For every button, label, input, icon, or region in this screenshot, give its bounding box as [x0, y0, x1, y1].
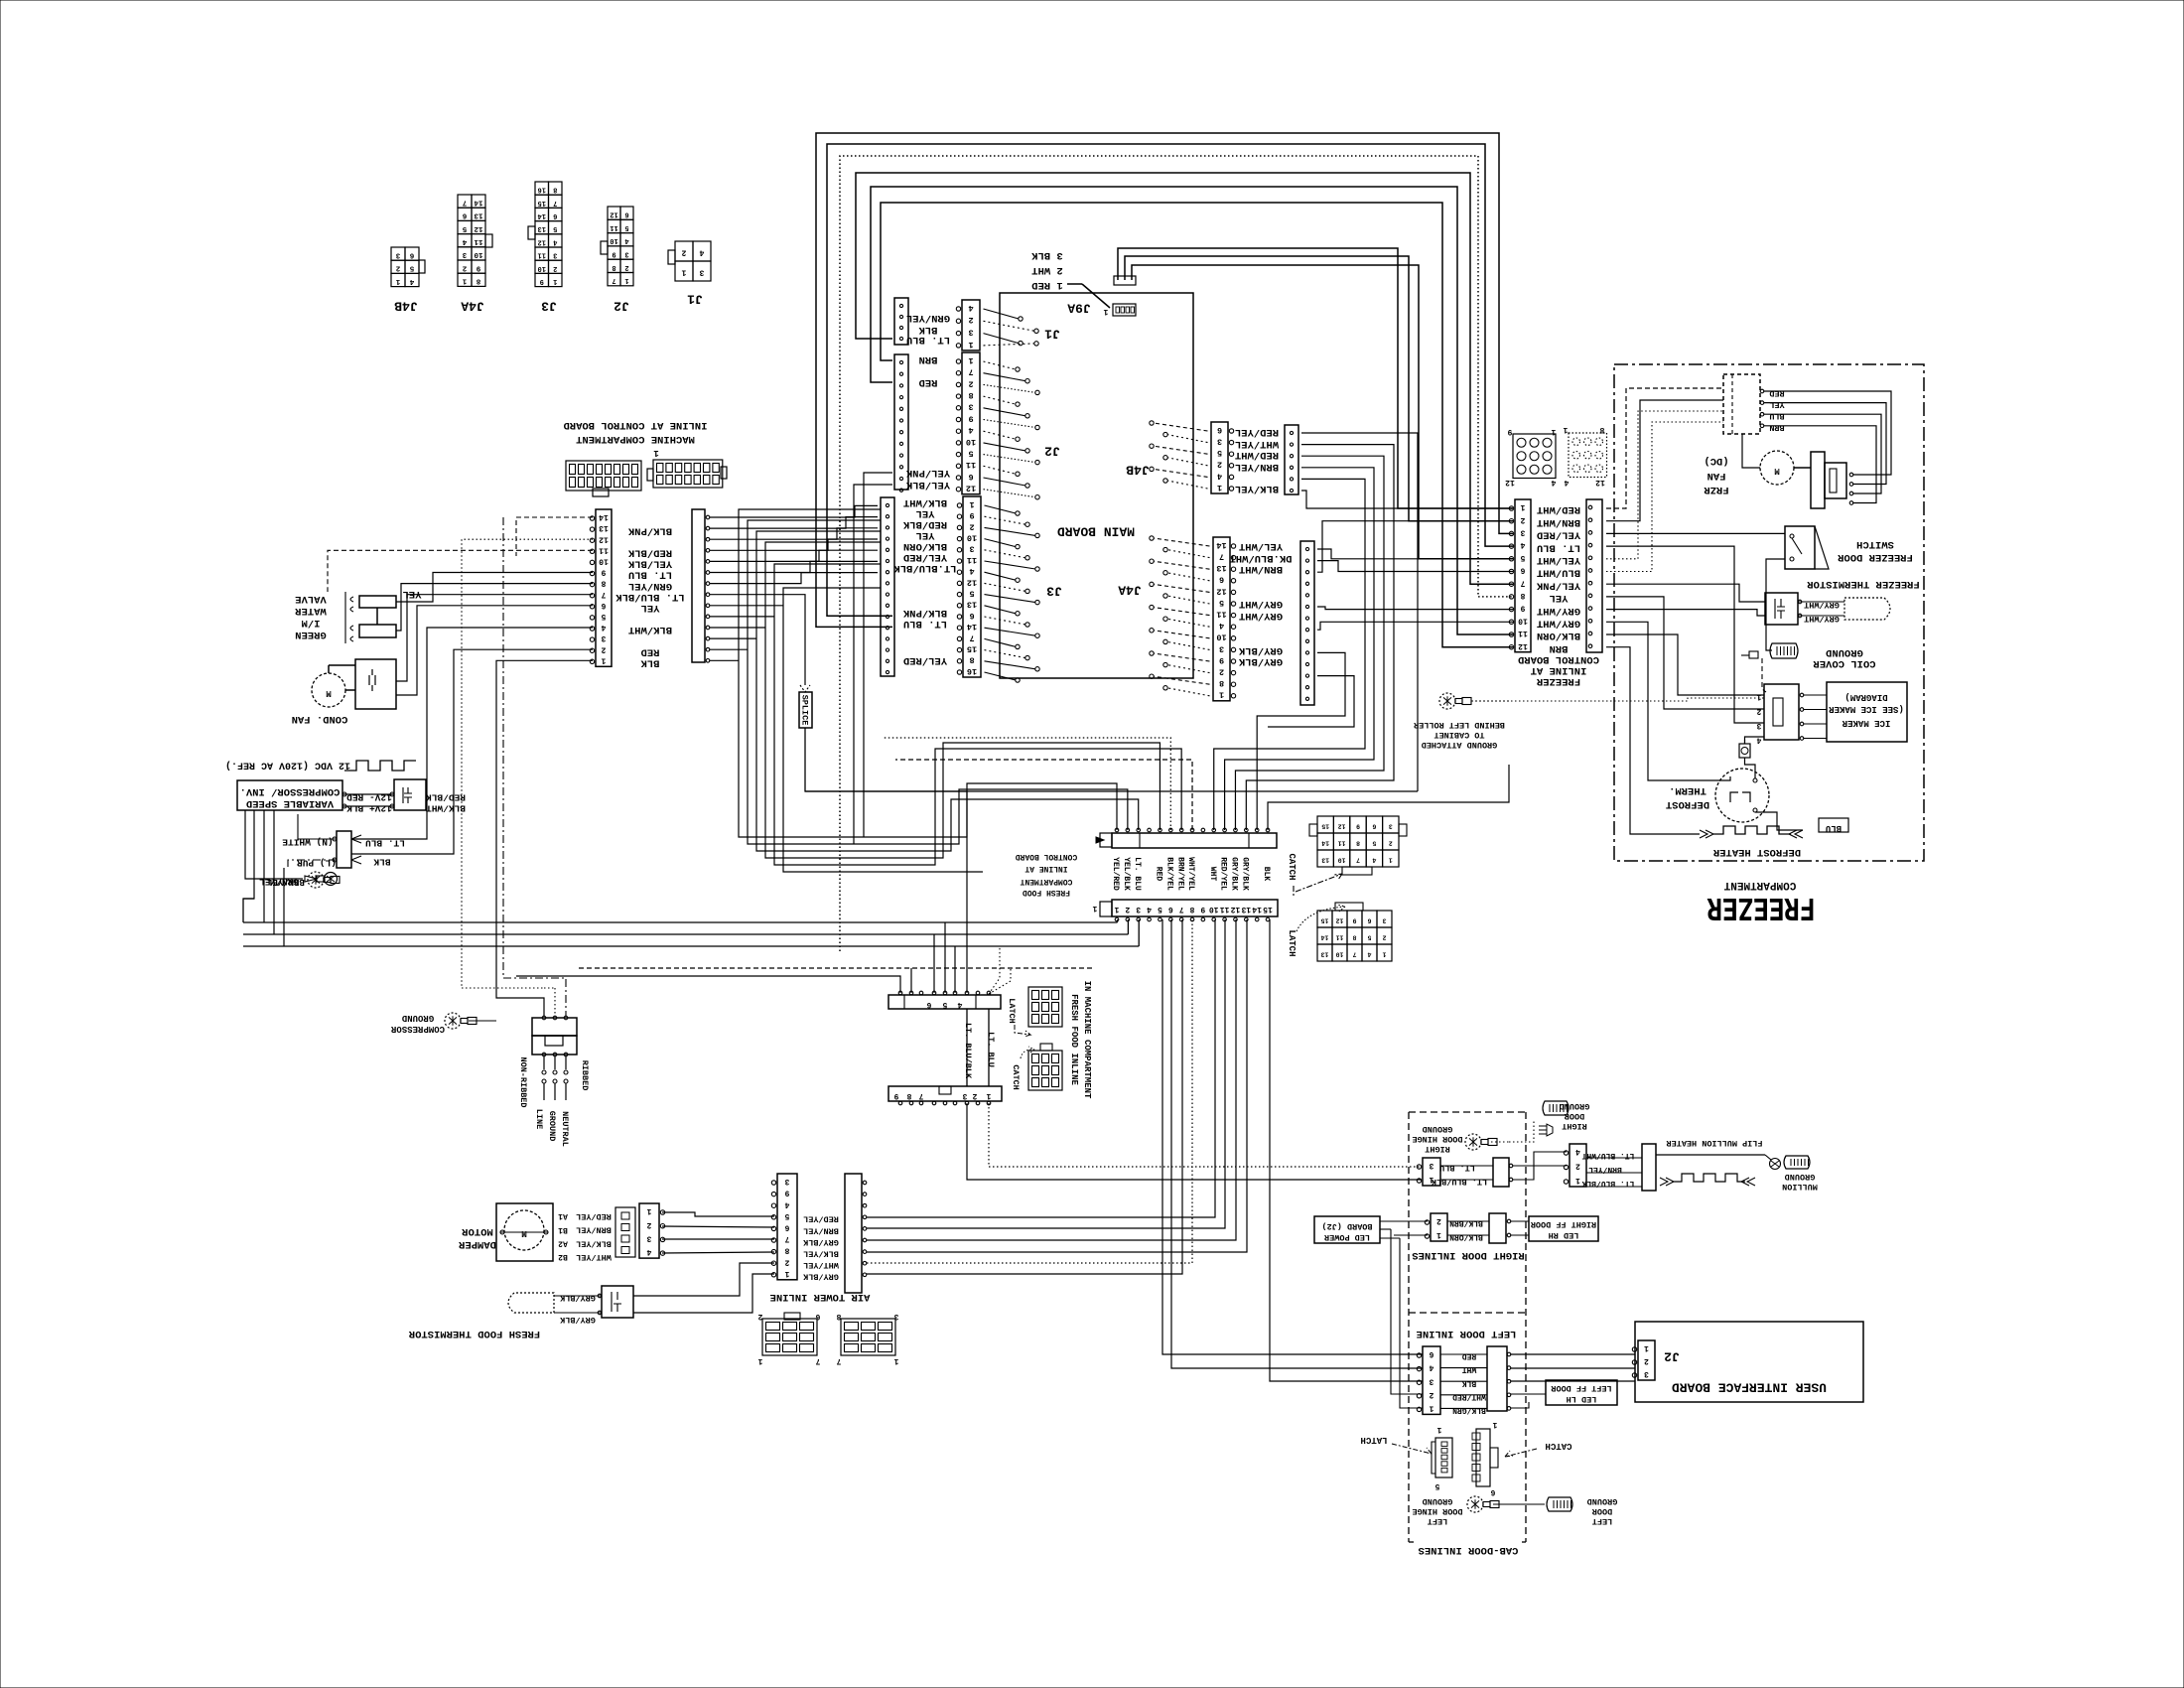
svg-text:BRN/YEL: BRN/YEL: [803, 1225, 839, 1235]
svg-text:FRZR: FRZR: [1704, 484, 1729, 495]
svg-text:14: 14: [474, 198, 483, 206]
svg-text:10: 10: [610, 236, 617, 244]
svg-text:3: 3: [395, 250, 400, 258]
svg-text:4: 4: [1219, 621, 1224, 631]
svg-text:YEL: YEL: [916, 529, 935, 541]
svg-text:2: 2: [968, 378, 973, 388]
svg-text:6: 6: [1372, 823, 1376, 830]
flip mullion heater: [1586, 1138, 1765, 1191]
svg-text:SWITCH: SWITCH: [1856, 538, 1894, 550]
svg-text:WHT/YEL: WHT/YEL: [1186, 857, 1195, 891]
svg-text:1: 1: [601, 655, 606, 664]
connector strip left of J1: [894, 298, 908, 345]
wire: [1225, 468, 1374, 830]
right door inline connector B: [1440, 1158, 1513, 1187]
wire compressor gnd: [469, 1020, 496, 1022]
svg-text:12: 12: [967, 577, 977, 587]
svg-text:BLK: BLK: [373, 857, 390, 868]
svg-text:11: 11: [610, 223, 617, 231]
svg-text:5: 5: [784, 1211, 789, 1220]
wire ice pin4 to fuse: [1745, 737, 1765, 744]
svg-text:2: 2: [1219, 667, 1224, 677]
wire RED to right: [1118, 248, 1513, 508]
svg-text:2: 2: [1436, 1216, 1441, 1225]
svg-text:14: 14: [1321, 840, 1329, 847]
wire: [263, 810, 265, 922]
svg-text:4: 4: [1147, 905, 1152, 914]
svg-text:J1: J1: [1044, 326, 1060, 341]
svg-text:5: 5: [1372, 840, 1376, 847]
svg-text:BLK/YEL: BLK/YEL: [1164, 857, 1173, 891]
svg-text:4: 4: [624, 236, 628, 244]
wire inv down: [283, 868, 285, 946]
svg-text:I/M: I/M: [302, 617, 321, 629]
connector J4B pictogram: [391, 247, 425, 313]
wire: [710, 550, 878, 561]
svg-text:LT. BLU: LT. BLU: [628, 569, 672, 581]
svg-text:1: 1: [1114, 905, 1119, 914]
svg-text:DOOR HINGE: DOOR HINGE: [1412, 1134, 1462, 1144]
svg-text:M: M: [326, 688, 331, 698]
wire GRY/BLK j4a down to col15: [1268, 676, 1354, 727]
svg-text:6: 6: [624, 211, 628, 218]
svg-text:MAIN BOARD: MAIN BOARD: [1057, 523, 1135, 538]
wire compressor 12V+: [342, 805, 394, 807]
svg-text:11: 11: [538, 251, 546, 259]
svg-text:10: 10: [599, 557, 609, 566]
svg-text:3: 3: [1429, 1161, 1433, 1170]
wire: [954, 946, 956, 993]
damper connector: [615, 1207, 635, 1257]
svg-text:LEFT FF DOOR: LEFT FF DOOR: [1551, 1383, 1612, 1393]
wire splice feed: [710, 595, 805, 685]
svg-text:7: 7: [968, 367, 973, 377]
svg-text:5: 5: [969, 589, 974, 599]
svg-text:YEL: YEL: [1769, 400, 1784, 410]
svg-text:WHT/YEL: WHT/YEL: [576, 1252, 612, 1262]
svg-text:BLK: BLK: [640, 657, 660, 669]
svg-text:7: 7: [969, 633, 974, 642]
svg-text:RED/BLK: RED/BLK: [627, 547, 672, 559]
svg-text:(DC): (DC): [1704, 455, 1728, 467]
svg-text:IN MACHINE COMPARTMENT: IN MACHINE COMPARTMENT: [1082, 981, 1092, 1099]
machine compartment strip C labels: [615, 524, 685, 668]
wire BLK/YEL j4b pin1: [1301, 491, 1513, 508]
svg-text:4: 4: [1429, 1363, 1433, 1372]
wire GRN/YEL valve: [396, 584, 593, 631]
svg-text:BOARD (J2): BOARD (J2): [1321, 1221, 1372, 1231]
svg-text:4: 4: [462, 237, 467, 245]
wire: [710, 505, 878, 517]
connector J1 at main board: [906, 300, 1060, 351]
svg-text:WHT/YEL: WHT/YEL: [1235, 438, 1279, 450]
right door inline connector A: [1417, 1158, 1487, 1187]
svg-text:5: 5: [624, 223, 628, 231]
svg-text:10: 10: [538, 264, 546, 272]
svg-text:RED/YEL: RED/YEL: [576, 1211, 612, 1221]
svg-text:1: 1: [1382, 951, 1386, 958]
ice maker: [1756, 682, 1907, 745]
connector J3 at main board: [893, 496, 1062, 682]
wire GRY/WHT j4a to fz pin10: [1317, 622, 1513, 630]
wire YEL to cond fan: [396, 606, 593, 695]
latch grid small: [1007, 987, 1062, 1037]
svg-text:DK.BLU/WHT: DK.BLU/WHT: [1229, 552, 1292, 564]
svg-text:1: 1: [1492, 1420, 1497, 1429]
svg-text:USER INTERFACE BOARD: USER INTERFACE BOARD: [1672, 1379, 1827, 1394]
left door inline connector B: [1440, 1346, 1511, 1411]
wire: [765, 542, 1160, 858]
svg-text:BEHIND LEFT ROLLER: BEHIND LEFT ROLLER: [1413, 720, 1505, 730]
svg-text:3: 3: [462, 250, 467, 258]
svg-text:BLK/ORN: BLK/ORN: [1537, 630, 1580, 641]
svg-text:FLIP MULLION HEATER: FLIP MULLION HEATER: [1666, 1138, 1763, 1148]
svg-text:RIGHT FF DOOR: RIGHT FF DOOR: [1530, 1219, 1596, 1229]
catch grid: [1287, 816, 1407, 896]
connector strip left of J3: [881, 497, 894, 676]
svg-text:2: 2: [1217, 460, 1222, 470]
svg-text:5: 5: [1219, 598, 1224, 608]
wire: [933, 934, 935, 993]
svg-text:14: 14: [538, 211, 546, 219]
svg-text:BLK/WHT: BLK/WHT: [903, 496, 947, 508]
svg-text:4: 4: [1217, 471, 1222, 481]
svg-text:1: 1: [1389, 857, 1393, 864]
svg-text:BLK/ORN: BLK/ORN: [1449, 1232, 1483, 1241]
wire: [710, 573, 878, 584]
svg-text:3: 3: [601, 633, 606, 642]
svg-text:1: 1: [893, 1356, 898, 1365]
svg-text:RED: RED: [1769, 388, 1784, 398]
svg-text:BRN/WHT: BRN/WHT: [1537, 516, 1580, 528]
svg-text:9: 9: [1507, 427, 1512, 436]
svg-text:5: 5: [1217, 448, 1222, 458]
svg-text:5: 5: [942, 1000, 947, 1009]
svg-text:5: 5: [1158, 905, 1162, 914]
svg-text:2 WHT: 2 WHT: [1031, 264, 1063, 276]
wire: [710, 561, 878, 572]
connector J1 pictogram: [668, 241, 711, 306]
svg-text:6: 6: [1429, 1349, 1433, 1358]
svg-text:8: 8: [601, 579, 606, 588]
svg-text:1: 1: [1563, 425, 1568, 434]
svg-text:GRN/YEL: GRN/YEL: [628, 580, 672, 592]
svg-text:1: 1: [1092, 904, 1097, 913]
svg-text:4: 4: [1551, 478, 1556, 487]
svg-text:1: 1: [1575, 1176, 1580, 1185]
svg-text:CONTROL BOARD: CONTROL BOARD: [1518, 653, 1599, 665]
wire thermistor 1: [1606, 584, 1765, 602]
svg-text:3: 3: [1644, 1369, 1649, 1378]
upper strip: [888, 995, 1001, 1009]
wire ground dotted to ice: [1471, 698, 1764, 701]
svg-text:5: 5: [1520, 553, 1525, 562]
svg-text:7: 7: [1179, 905, 1184, 914]
wire LT.BLU/BLK to cond fan: [396, 595, 593, 681]
svg-text:6: 6: [784, 1223, 789, 1232]
svg-text:RED/BLK: RED/BLK: [426, 792, 466, 803]
svg-text:9: 9: [1200, 905, 1205, 914]
svg-text:GROUND: GROUND: [547, 1111, 557, 1142]
svg-text:2: 2: [395, 264, 400, 272]
svg-text:WHT/RED: WHT/RED: [1452, 1392, 1486, 1401]
svg-text:7: 7: [918, 1091, 923, 1100]
catch connector bottom: [1472, 1420, 1572, 1496]
svg-text:LT. BLU: LT. BLU: [1439, 1163, 1475, 1173]
wire RED: [351, 649, 593, 854]
svg-text:2: 2: [624, 263, 628, 271]
svg-text:GRY/BLK: GRY/BLK: [559, 1315, 596, 1325]
svg-text:CATCH: CATCH: [1287, 853, 1297, 880]
svg-text:10: 10: [1336, 951, 1344, 958]
svg-text:2: 2: [1389, 840, 1393, 847]
connector strip right of J4A: [1300, 541, 1314, 705]
svg-text:4: 4: [646, 1247, 651, 1256]
svg-text:FREEZER DOOR: FREEZER DOOR: [1838, 551, 1913, 563]
freezer fan motor: [1704, 434, 1853, 508]
section: power cord plug: [518, 1016, 590, 1107]
svg-text:1: 1: [1217, 483, 1222, 492]
wire dashed c pin14: [516, 517, 593, 556]
svg-text:3: 3: [893, 1312, 898, 1321]
connector 3-pin above J9A: [1114, 276, 1136, 285]
svg-text:CAB-DOOR INLINES: CAB-DOOR INLINES: [1419, 1544, 1519, 1556]
svg-text:13: 13: [474, 211, 483, 219]
svg-text:J2: J2: [1044, 443, 1060, 458]
wire to brn/yel lug: [245, 810, 303, 879]
svg-text:12V+ BLK: 12V+ BLK: [346, 803, 392, 814]
svg-text:2: 2: [601, 644, 606, 653]
svg-text:7: 7: [815, 1356, 820, 1365]
connector J3 pictogram: [528, 182, 562, 313]
svg-text:YEL/WHT: YEL/WHT: [1239, 540, 1283, 552]
wire: [1117, 919, 1119, 922]
section: CAB-DOOR INLINES box: [1409, 1112, 1526, 1556]
svg-text:1: 1: [1551, 427, 1556, 436]
svg-text:13: 13: [1321, 951, 1329, 958]
svg-text:SPLICE: SPLICE: [799, 695, 809, 726]
svg-text:1: 1: [1756, 692, 1761, 701]
svg-text:LT. BLU: LT. BLU: [1133, 857, 1142, 891]
svg-text:1: 1: [462, 277, 467, 285]
svg-text:GROUND ATTACHED: GROUND ATTACHED: [1422, 740, 1498, 750]
svg-text:4: 4: [553, 237, 557, 245]
svg-text:8: 8: [836, 1312, 841, 1321]
svg-text:J9A: J9A: [1067, 300, 1091, 315]
svg-text:TO CABINET: TO CABINET: [1433, 730, 1484, 740]
svg-text:LT. BLU/BLK: LT. BLU/BLK: [1431, 1177, 1487, 1187]
svg-text:4: 4: [1575, 1147, 1580, 1156]
svg-text:RED/YEL: RED/YEL: [803, 1214, 839, 1224]
left door hinge ground: [1412, 1496, 1617, 1526]
svg-text:COIL COVER: COIL COVER: [1813, 657, 1876, 669]
led lh left ff door: [1511, 1380, 1617, 1408]
molex grid solid 12-pin: [1505, 427, 1556, 487]
svg-text:THERM.: THERM.: [1669, 784, 1706, 796]
svg-text:FREEZER THERMISTOR: FREEZER THERMISTOR: [1807, 578, 1920, 590]
wire BLK to plug line: [496, 660, 593, 1016]
svg-text:(N) WHITE: (N) WHITE: [282, 837, 334, 848]
section: condenser fan: [292, 659, 396, 725]
wires left door to UIB: [1511, 1353, 1635, 1355]
svg-text:J4B: J4B: [1126, 462, 1150, 477]
svg-text:LEFT DOOR INLINE: LEFT DOOR INLINE: [1417, 1328, 1517, 1339]
svg-text:BLK: BLK: [1262, 867, 1271, 882]
svg-text:3: 3: [968, 402, 973, 412]
svg-text:3: 3: [624, 250, 628, 258]
svg-text:6: 6: [553, 211, 557, 219]
svg-text:1: 1: [1103, 307, 1108, 316]
svg-text:8: 8: [969, 655, 974, 665]
svg-text:15: 15: [538, 199, 546, 207]
svg-text:2: 2: [757, 1312, 762, 1321]
svg-text:J4B: J4B: [394, 298, 418, 313]
svg-text:5: 5: [409, 264, 414, 272]
svg-text:LATCH: LATCH: [1287, 929, 1297, 956]
svg-text:6: 6: [815, 1312, 820, 1321]
svg-text:BRN/YEL: BRN/YEL: [1235, 461, 1279, 473]
wire: [1214, 479, 1365, 830]
svg-text:RED/WHT: RED/WHT: [1235, 449, 1279, 461]
svg-text:1: 1: [968, 340, 973, 350]
air tower molex grids: [757, 1312, 820, 1365]
freezer fan wires: [1764, 391, 1891, 475]
connector grid 16-pin machine compartment: [566, 461, 641, 491]
svg-text:11: 11: [599, 545, 609, 554]
svg-text:2: 2: [972, 1091, 977, 1100]
wire loop: [827, 144, 1513, 616]
svg-text:1: 1: [653, 448, 659, 458]
svg-text:YEL/RED: YEL/RED: [903, 551, 947, 563]
section: damper motor: [458, 1203, 611, 1262]
wire defrost to heater: [1755, 812, 1803, 830]
freezer inline labels: [1536, 503, 1580, 654]
wire coil gnd dashed: [1762, 658, 1766, 692]
svg-text:M: M: [521, 1228, 526, 1238]
svg-text:1 RED: 1 RED: [1031, 279, 1063, 291]
svg-text:RIGHT DOOR INLINES: RIGHT DOOR INLINES: [1412, 1249, 1524, 1261]
lower strip: [888, 1086, 1002, 1105]
wire LT.BLU/BLK: [966, 1009, 968, 1086]
svg-text:6: 6: [926, 1000, 931, 1009]
left door inline connector A: [1417, 1346, 1486, 1415]
wires from lower machine strip to right door inline: [989, 1103, 1422, 1167]
svg-text:MACHINE COMPARTMENT: MACHINE COMPARTMENT: [576, 433, 695, 445]
svg-text:BLK/YEL: BLK/YEL: [1235, 483, 1279, 494]
machine compartment strip C: [590, 509, 612, 666]
svg-text:9: 9: [540, 277, 544, 285]
wire bus 2: [243, 933, 1128, 935]
svg-text:GRN/YEL: GRN/YEL: [906, 312, 950, 324]
mullion ground: [1765, 1155, 1818, 1192]
wire: [710, 528, 878, 539]
svg-text:LT. BLU/BLK: LT. BLU/BLK: [963, 1023, 973, 1079]
svg-text:1: 1: [681, 268, 686, 277]
svg-text:DIAGRAM): DIAGRAM): [1844, 692, 1887, 702]
svg-text:LED POWER: LED POWER: [1323, 1232, 1370, 1242]
wire: [710, 539, 878, 550]
wire: [783, 588, 983, 872]
svg-text:LATCH: LATCH: [1007, 998, 1017, 1024]
svg-text:6: 6: [1367, 917, 1371, 924]
svg-text:VARIABLE SPEED: VARIABLE SPEED: [246, 797, 334, 809]
wire DK.BLU/WHT j4a to fz pin6: [1317, 561, 1513, 572]
svg-text:3: 3: [699, 268, 704, 277]
svg-text:COMPARTMENT: COMPARTMENT: [1020, 877, 1072, 886]
svg-text:12: 12: [1505, 478, 1515, 487]
svg-text:2: 2: [462, 263, 467, 271]
svg-text:4: 4: [409, 277, 414, 285]
led rh right ff door: [1511, 1216, 1598, 1241]
svg-text:8: 8: [968, 390, 973, 400]
svg-text:LATCH: LATCH: [1360, 1435, 1387, 1445]
svg-text:6: 6: [1219, 575, 1224, 585]
wires led power to left door pins: [1391, 1229, 1423, 1394]
svg-text:LED RH: LED RH: [1549, 1230, 1579, 1240]
svg-text:BLK/PNK: BLK/PNK: [902, 607, 947, 619]
wire loop: [881, 203, 1513, 647]
wire LT.BLU: [988, 1009, 990, 1086]
svg-text:FAN: FAN: [1707, 470, 1726, 482]
latch grid: [1287, 903, 1392, 961]
svg-text:9: 9: [969, 510, 974, 520]
wire riser yel/blk: [854, 485, 892, 844]
svg-text:J3: J3: [541, 298, 557, 313]
svg-text:4: 4: [1372, 857, 1376, 864]
wire BLK to right: [1132, 265, 1513, 559]
wire loop: [816, 133, 1513, 627]
damper wires to air tower: [662, 1212, 774, 1216]
wire fz fan 4 dotted: [1606, 422, 1723, 572]
svg-text:3: 3: [784, 1177, 789, 1186]
svg-text:J4A: J4A: [1118, 582, 1142, 597]
svg-text:5: 5: [553, 224, 557, 232]
svg-text:RED/YEL: RED/YEL: [1235, 426, 1279, 438]
wire WHT to right: [1125, 256, 1513, 521]
wire air tower pin harness: [867, 919, 1215, 1217]
wire BRN/WHT j4a to fz pin2: [1317, 521, 1513, 573]
svg-text:BLK/PNK: BLK/PNK: [627, 524, 672, 536]
svg-text:BLU: BLU: [1769, 411, 1784, 421]
svg-text:6: 6: [409, 250, 414, 258]
wire dotted diag2: [989, 968, 1011, 994]
svg-text:6: 6: [969, 611, 974, 621]
verticals to left door inline: [1162, 919, 1423, 1354]
svg-text:3: 3: [969, 544, 974, 554]
svg-text:11: 11: [1220, 905, 1230, 914]
defrost heater: [1700, 818, 1848, 858]
wire loop: [871, 187, 1513, 634]
svg-text:LT. BLU: LT. BLU: [986, 1032, 996, 1067]
wire inv conn2: [288, 860, 337, 868]
svg-text:GRY/BLK: GRY/BLK: [559, 1293, 596, 1303]
svg-text:12: 12: [1216, 586, 1226, 596]
wire YEL/BLK dashed: [328, 550, 593, 592]
svg-text:4: 4: [601, 623, 606, 632]
svg-text:1: 1: [624, 276, 628, 284]
svg-text:FREEZER: FREEZER: [1706, 889, 1815, 925]
catch grid small: [1011, 1044, 1062, 1090]
wire fuse to defrost: [1745, 758, 1756, 778]
svg-text:1: 1: [395, 277, 400, 285]
svg-text:1: 1: [969, 499, 974, 509]
svg-text:COMPRESSOR: COMPRESSOR: [390, 1024, 445, 1034]
svg-text:YEL: YEL: [1550, 592, 1569, 604]
svg-text:12: 12: [1518, 641, 1528, 650]
svg-text:7: 7: [1352, 951, 1356, 958]
svg-text:9: 9: [1352, 917, 1356, 924]
svg-text:RIBBED: RIBBED: [580, 1060, 590, 1091]
